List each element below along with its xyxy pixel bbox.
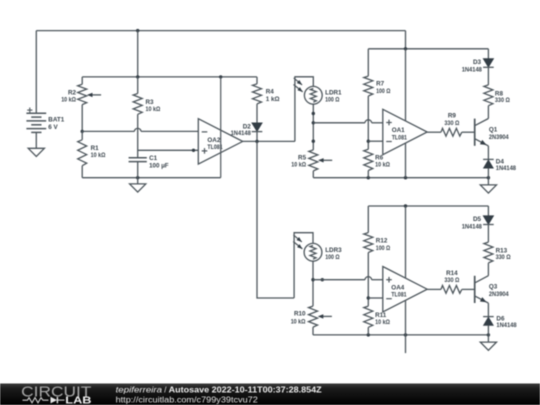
wire OA4 inverting input <box>368 297 383 299</box>
svg-text:10 kΩ: 10 kΩ <box>91 152 106 159</box>
svg-text:TL081: TL081 <box>391 292 407 299</box>
wire R2 bottom to junction <box>81 105 83 132</box>
resistor R12 100R <box>364 233 390 253</box>
ground bottom block <box>480 342 496 350</box>
resistor R2 (pot) 10k <box>61 84 101 104</box>
svg-text:1N4148: 1N4148 <box>496 165 517 172</box>
svg-text:R4: R4 <box>266 88 275 95</box>
wire R6 bottom <box>367 171 369 178</box>
svg-text:tepiferreira / Autosave 2022-1: tepiferreira / Autosave 2022-10-11T00:37… <box>116 386 322 395</box>
svg-text:R3: R3 <box>146 99 155 106</box>
wire OA2 inverting input <box>82 130 134 132</box>
svg-text:OA4: OA4 <box>391 284 404 291</box>
wire Q1 collector <box>487 106 489 119</box>
node R2/R1/OA2- junction <box>81 130 84 133</box>
wire R7 to R6 junction <box>367 96 369 149</box>
wire ground stem <box>487 178 489 185</box>
node V+ feed junction bottom <box>404 204 407 207</box>
wire hop over R7 branch <box>365 120 372 123</box>
svg-text:2N3904: 2N3904 <box>489 134 509 141</box>
wire Q3 collector <box>487 263 489 276</box>
wire OA4 V+ <box>405 206 407 278</box>
diode D2 1N4148 <box>231 123 263 137</box>
wire R5 bottom <box>312 171 314 178</box>
node OA2 + terminal <box>192 149 195 152</box>
node rail/R3 <box>136 75 139 78</box>
resistor R9 330R <box>441 113 462 137</box>
wire OA2 supply (V+ to V-) <box>220 77 222 178</box>
wire D4 to rail <box>487 168 489 178</box>
wire R12 top lead <box>367 206 369 233</box>
wire OA4 V- stub <box>405 335 407 353</box>
transistor Q3 2N3904 <box>475 276 509 303</box>
svg-text:R10: R10 <box>294 310 306 317</box>
wire OA2 non-inverting input <box>138 149 199 151</box>
svg-text:LAB: LAB <box>65 396 91 405</box>
node top bus / R3 branch junction <box>136 29 139 32</box>
svg-text:R2: R2 <box>68 89 77 96</box>
svg-text:Q1: Q1 <box>489 126 498 133</box>
wire OA1 V- <box>405 143 407 178</box>
svg-text:10 kΩ: 10 kΩ <box>375 319 390 326</box>
svg-text:LDR1: LDR1 <box>325 90 342 97</box>
svg-text:10 kΩ: 10 kΩ <box>291 162 306 169</box>
wire OA2 output <box>243 140 295 142</box>
wire hop over R3 branch <box>134 128 141 131</box>
wire top supply bus <box>36 30 405 32</box>
ground top block <box>480 185 496 193</box>
svg-text:100 Ω: 100 Ω <box>376 245 390 252</box>
svg-text:1N4148: 1N4148 <box>462 224 483 231</box>
node R11 bottom/rail <box>367 333 370 336</box>
wire D3 top lead <box>487 49 489 59</box>
wire R3 top lead <box>137 77 139 94</box>
svg-text:10 kΩ: 10 kΩ <box>61 97 76 104</box>
node OA4 - tap <box>367 296 370 299</box>
node rail/OA2 supply <box>219 75 222 78</box>
resistor R4 1k <box>253 84 280 104</box>
node D4/rail <box>487 176 490 179</box>
wire R2 top lead <box>81 77 83 84</box>
svg-text:OA2: OA2 <box>207 137 220 144</box>
svg-text:R7: R7 <box>376 81 385 88</box>
svg-text:1 kΩ: 1 kΩ <box>266 96 280 103</box>
photoresistor LDR1 100R <box>294 78 343 104</box>
diode D5 1N4148 <box>462 216 494 231</box>
wire R9 to Q1 base <box>462 131 475 133</box>
resistor R13 330R <box>484 242 511 263</box>
wire R1 bottom <box>81 166 83 178</box>
wire Q3 emitter to D6 <box>487 303 489 317</box>
node D6/rail <box>487 333 490 336</box>
wire D2 to output node <box>256 131 258 142</box>
wire D3 to R8 <box>487 67 489 85</box>
node C1 bottom/rail <box>136 176 139 179</box>
wire OA4 output <box>427 288 441 290</box>
wire OA1 V+ <box>405 49 407 121</box>
op-amp OA4 TL081 <box>383 267 427 312</box>
wire R14 to Q3 base <box>462 288 475 290</box>
svg-text:330 Ω: 330 Ω <box>496 254 511 261</box>
wire ground stem <box>487 335 489 342</box>
ground battery <box>28 148 44 156</box>
svg-text:1N4148: 1N4148 <box>496 322 517 329</box>
transistor Q1 2N3904 <box>475 119 509 146</box>
op-amp OA1 TL081 <box>383 109 427 154</box>
wire top block V+ feed <box>405 31 407 49</box>
svg-text:1N4148: 1N4148 <box>231 130 252 137</box>
wire to LDR1 top <box>295 77 313 142</box>
wire bus drop to rail <box>137 31 139 77</box>
node OA1 V-/rail <box>404 176 407 179</box>
svg-text:100 µF: 100 µF <box>149 162 169 169</box>
resistor R8 330R <box>484 85 510 106</box>
wire bracket to LDR3 top <box>294 233 313 298</box>
wire R4 to D2 <box>256 104 258 123</box>
ground C1 <box>130 184 146 192</box>
node R5 top terminal <box>312 140 315 143</box>
svg-text:R9: R9 <box>448 113 457 120</box>
node V+ feed junction <box>404 47 407 50</box>
svg-text:LDR3: LDR3 <box>325 247 342 254</box>
svg-text:D5: D5 <box>473 216 482 223</box>
node OA1 + tap <box>312 121 315 124</box>
battery BAT1 6V <box>26 108 64 133</box>
resistor R5 (pot) 10k <box>291 150 332 171</box>
svg-text:100 Ω: 100 Ω <box>376 88 390 95</box>
svg-text:6 V: 6 V <box>48 124 58 131</box>
svg-text:2N3904: 2N3904 <box>489 291 509 298</box>
wire output feed down to LDR3 <box>257 141 294 298</box>
svg-text:100 Ω: 100 Ω <box>325 254 339 261</box>
wire OA1 non-inverting input <box>313 122 365 124</box>
svg-text:D3: D3 <box>473 59 482 66</box>
CircuitLab logo <box>21 383 91 405</box>
photoresistor LDR3 100R <box>293 235 342 261</box>
resistor R1 10k <box>78 140 106 166</box>
resistor R10 (pot) 10k <box>291 306 332 327</box>
svg-text:330 Ω: 330 Ω <box>444 277 459 284</box>
wire Q1 emitter to D4 <box>487 146 489 160</box>
wire top-block ground rail <box>313 177 488 179</box>
wire bottom-block ground rail <box>313 334 488 336</box>
svg-text:1N4148: 1N4148 <box>462 66 483 73</box>
wire hop over R12 branch <box>365 277 372 280</box>
svg-text:330 Ω: 330 Ω <box>495 97 510 104</box>
wire LDR1 bottom <box>312 104 314 150</box>
resistor R11 10k <box>364 306 390 327</box>
wire R3 bottom to C1 <box>137 114 139 158</box>
wire OA1 inverting input <box>368 140 383 142</box>
wire R7 top lead <box>367 49 369 76</box>
svg-text:C1: C1 <box>149 155 158 162</box>
wire D6 to rail <box>487 325 489 335</box>
wire C1 bottom <box>137 162 139 178</box>
diode D3 1N4148 <box>462 59 494 74</box>
op-amp OA2 TL081 <box>198 119 242 164</box>
node OA4 V-/rail <box>404 333 407 336</box>
svg-text:OA1: OA1 <box>392 127 405 134</box>
wire D5 to R13 <box>487 224 489 242</box>
svg-text:10 kΩ: 10 kΩ <box>146 106 161 113</box>
wire bottom block V+ feed <box>368 205 488 207</box>
resistor R3 10k <box>133 94 160 115</box>
wire battery positive lead <box>35 31 37 114</box>
wire D5 top lead <box>487 206 489 216</box>
wire R4 top lead <box>256 77 258 84</box>
wire OA4 V- upper <box>405 300 407 335</box>
diode D4 1N4148 <box>483 159 516 172</box>
svg-text:TL081: TL081 <box>392 134 408 141</box>
node OA4 + tap <box>311 278 314 281</box>
node OA2 output / D2 / LDR3 feed <box>255 140 258 143</box>
resistor R14 330R <box>441 270 462 294</box>
svg-text:10 kΩ: 10 kΩ <box>291 318 306 325</box>
wire left V+ rail <box>82 76 257 78</box>
wire battery negative lead <box>35 132 37 148</box>
wire OA4 non-inverting input <box>313 279 365 281</box>
svg-text:R14: R14 <box>446 270 458 277</box>
node OA1 - tap <box>367 140 370 143</box>
node R6 bottom/rail <box>367 176 370 179</box>
svg-text:100 Ω: 100 Ω <box>325 97 339 104</box>
node LDR1 bottom terminal <box>312 112 315 115</box>
wire OA1 output <box>427 131 441 133</box>
wire ground stem <box>137 178 139 184</box>
resistor R7 100R <box>364 76 391 96</box>
node wire joint <box>321 278 324 281</box>
svg-text:10 kΩ: 10 kΩ <box>375 162 390 169</box>
resistor R6 10k <box>364 149 390 170</box>
wire left ground rail <box>82 177 221 179</box>
capacitor C1 100uF <box>129 155 169 169</box>
svg-text:R5: R5 <box>298 154 307 161</box>
wire R10 bottom <box>312 327 314 335</box>
svg-text:R12: R12 <box>376 237 388 244</box>
svg-text:BAT1: BAT1 <box>48 117 64 124</box>
svg-text:http://circuitlab.com/c799y39t: http://circuitlab.com/c799y39tcvu72 <box>116 395 258 404</box>
wire R12 to R11 junction <box>367 253 369 307</box>
diode D6 1N4148 <box>483 316 517 329</box>
wire R11 bottom <box>367 327 369 335</box>
svg-text:Q3: Q3 <box>489 284 498 291</box>
svg-text:330 Ω: 330 Ω <box>444 120 459 127</box>
wire LDR3 bottom <box>312 261 314 306</box>
